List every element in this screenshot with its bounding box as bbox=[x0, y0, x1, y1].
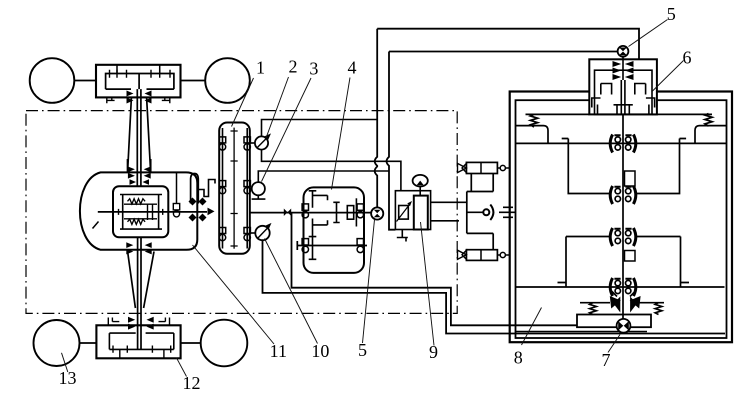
svg-text:5: 5 bbox=[358, 340, 367, 360]
svg-text:12: 12 bbox=[183, 373, 201, 393]
svg-text:8: 8 bbox=[514, 348, 523, 368]
svg-text:9: 9 bbox=[429, 342, 438, 362]
svg-text:10: 10 bbox=[311, 341, 329, 361]
svg-text:1: 1 bbox=[256, 58, 265, 78]
svg-text:7: 7 bbox=[602, 350, 611, 370]
svg-text:13: 13 bbox=[59, 368, 77, 388]
svg-text:6: 6 bbox=[683, 47, 692, 67]
svg-text:4: 4 bbox=[348, 58, 357, 78]
svg-text:3: 3 bbox=[309, 58, 318, 78]
svg-text:5: 5 bbox=[667, 4, 676, 24]
svg-text:2: 2 bbox=[289, 57, 298, 77]
svg-text:11: 11 bbox=[270, 341, 287, 361]
